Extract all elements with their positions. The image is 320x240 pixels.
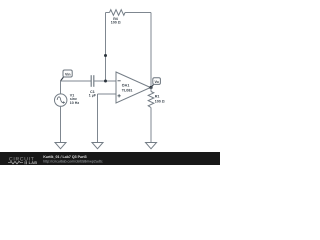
svg-text:1 µF: 1 µF [89,94,97,98]
wire: middle ground vertical [97,94,99,143]
ground (R1) [146,143,157,149]
wire: right feedback vertical (rail to output) [150,13,152,88]
svg-text:Vin: Vin [65,73,71,77]
wire: Vin corner down to V1 [60,81,62,94]
svg-text:TL081: TL081 [122,88,133,92]
ground (V1) [55,143,66,149]
node flag Vin [61,70,73,81]
wire: input rail from Vin corner to capacitor [61,80,92,82]
wire: left feedback vertical (rail to inverting input) [105,13,107,82]
svg-text:100 Ω: 100 Ω [155,100,165,104]
junction dot on left feedback wire [104,54,107,57]
CircuitLab logo wordmark [8,156,37,165]
svg-text:10 Hz: 10 Hz [70,101,80,105]
ground (non-inverting input) [92,143,103,149]
resistor R4 [110,10,126,16]
footer bar [0,152,220,165]
svg-text:R1: R1 [155,95,160,99]
svg-text:100 Ω: 100 Ω [111,20,121,24]
wire: top feedback rail right lead [125,12,151,14]
wire: R1 to ground [150,108,152,143]
junction dot at inverting input node [104,80,107,83]
svg-text:http://circuitlab.com/c6rb58mw: http://circuitlab.com/c6rb58mwp2adtc [43,160,103,164]
resistor R1 [148,92,154,108]
wire: top feedback rail left lead [106,12,110,14]
junction dot at output node [149,86,152,89]
svg-text:LAB: LAB [29,161,38,165]
wire: V1 to ground [60,106,62,142]
capacitor C1 [91,75,94,87]
wire: non-inverting input wire [98,93,117,95]
voltage source V1 sine [55,94,67,106]
op-amp OA1 TL081 [116,72,151,103]
wire: capacitor to inverting input [94,80,116,82]
wire: output node to R1 [150,88,152,92]
svg-text:OA1: OA1 [122,83,130,87]
node flag Vo [151,78,160,88]
